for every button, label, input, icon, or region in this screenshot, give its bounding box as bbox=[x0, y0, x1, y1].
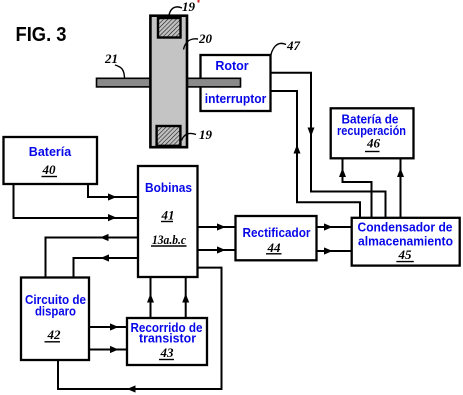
wire circuito to recorrido upper bbox=[89, 323, 127, 330]
wire bobinas to circuito B bbox=[74, 254, 139, 277]
wire bobinas to circuito A bbox=[46, 234, 139, 277]
svg-text:Rotor: Rotor bbox=[215, 59, 248, 73]
wire bateria upper to bobinas bbox=[88, 184, 138, 201]
svg-text:45: 45 bbox=[398, 247, 413, 262]
svg-text:46: 46 bbox=[366, 136, 381, 151]
label 19 bottom bbox=[182, 127, 213, 142]
label 19 top bbox=[169, 0, 196, 17]
box B46 Bateria de recuperacion bbox=[331, 108, 414, 158]
magnet 19 bottom bbox=[157, 126, 181, 146]
svg-text:FIG. 3: FIG. 3 bbox=[16, 23, 67, 46]
svg-text:47: 47 bbox=[286, 38, 301, 53]
red tick bbox=[198, 0, 200, 3]
wire rectificador to condensador upper bbox=[317, 223, 353, 230]
svg-text:transistor: transistor bbox=[139, 332, 196, 346]
svg-text:19: 19 bbox=[182, 0, 196, 14]
rotor body 20 bbox=[150, 16, 187, 148]
svg-text:13a.b.c: 13a.b.c bbox=[152, 232, 186, 247]
svg-text:21: 21 bbox=[104, 51, 118, 66]
svg-text:interruptor: interruptor bbox=[205, 92, 267, 106]
svg-text:Bobinas: Bobinas bbox=[145, 181, 192, 195]
text U47 Rotor interruptor bbox=[205, 59, 267, 106]
box U44 Rectificador bbox=[236, 216, 317, 260]
svg-text:42: 42 bbox=[47, 327, 62, 342]
svg-text:19: 19 bbox=[199, 127, 213, 142]
svg-text:43: 43 bbox=[160, 345, 175, 360]
wire condensador to bateria recuperacion right bbox=[397, 158, 404, 218]
box U42 Circuito de disparo bbox=[21, 278, 89, 361]
label 21 bbox=[104, 51, 125, 78]
box C45 Condensador de almacenamiento bbox=[352, 218, 460, 266]
svg-text:44: 44 bbox=[267, 240, 282, 255]
wire rotor interruptor bottom to condensador bbox=[270, 91, 360, 218]
svg-text:Condensador de: Condensador de bbox=[358, 221, 453, 235]
box L41 Bobinas bbox=[138, 166, 198, 277]
magnet 19 top bbox=[158, 18, 181, 38]
label 20 bbox=[184, 31, 213, 50]
wire bobinas to rectificador lower bbox=[198, 246, 236, 253]
svg-text:20: 20 bbox=[198, 31, 213, 46]
shaft 21 bbox=[97, 78, 241, 87]
wire condensador to bateria recuperacion left bbox=[339, 158, 372, 218]
svg-text:40: 40 bbox=[42, 162, 57, 177]
wire recorrido to bobinas right bbox=[182, 277, 189, 318]
box B40 Bateria bbox=[4, 137, 98, 184]
svg-text:Rectificador: Rectificador bbox=[243, 226, 311, 240]
wire bobinas to rectificador upper bbox=[198, 223, 236, 230]
wire rectificador to condensador lower bbox=[317, 247, 353, 254]
wire bateria lower to bobinas bbox=[14, 184, 139, 221]
svg-text:Batería: Batería bbox=[29, 145, 72, 159]
wire recorrido to bobinas left bbox=[147, 277, 154, 318]
label 47 bbox=[270, 38, 301, 60]
wire circuito to recorrido lower bbox=[89, 346, 127, 353]
wire rotor interruptor top to condensador bbox=[270, 73, 386, 218]
box Q43 Recorrido de transistor bbox=[127, 318, 207, 365]
svg-text:41: 41 bbox=[161, 208, 175, 223]
svg-text:disparo: disparo bbox=[35, 305, 76, 319]
wire bobinas feedback to circuito bottom bbox=[58, 268, 222, 393]
box U47 Rotor interruptor bbox=[201, 55, 271, 111]
